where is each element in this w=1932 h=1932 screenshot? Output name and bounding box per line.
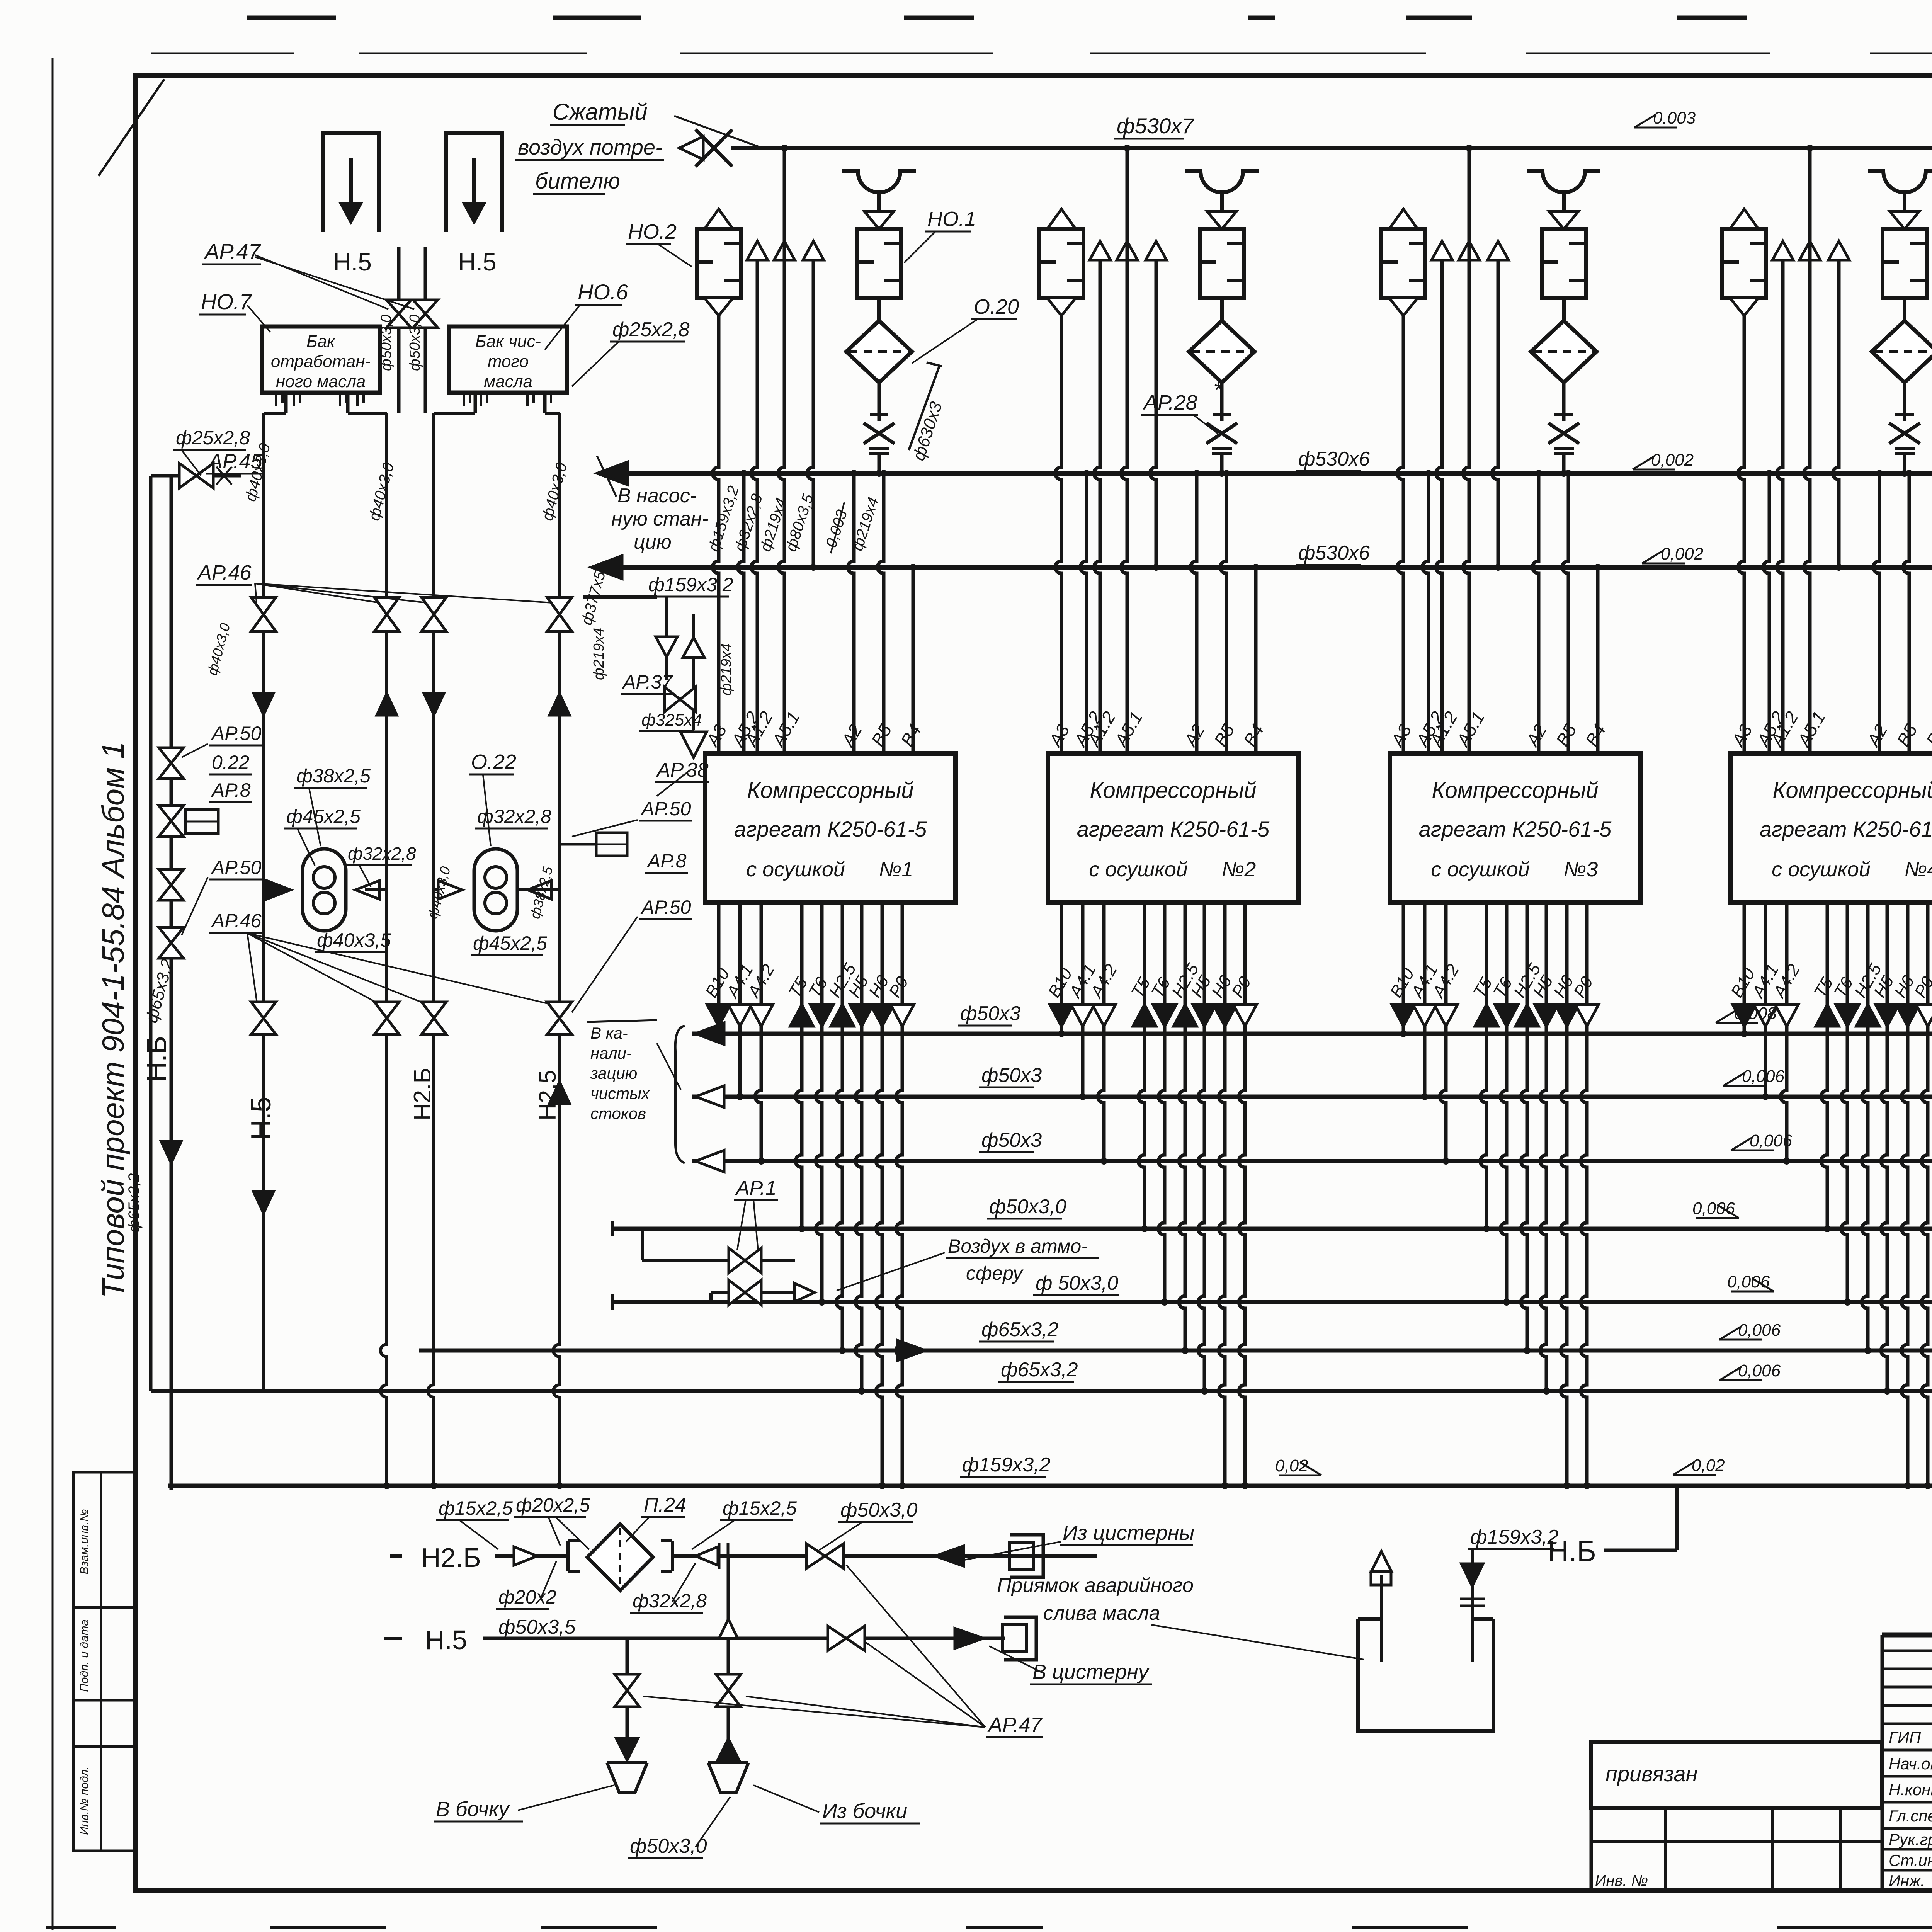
svg-text:ф15х2,5: ф15х2,5 xyxy=(723,1497,797,1519)
svg-text:Нач.отд.: Нач.отд. xyxy=(1889,1755,1932,1773)
svg-text:Воздух в атмо-: Воздух в атмо- xyxy=(948,1235,1088,1257)
svg-text:№1: №1 xyxy=(879,858,913,881)
svg-text:0,006: 0,006 xyxy=(1727,1272,1770,1291)
svg-text:Рук.гр.: Рук.гр. xyxy=(1889,1830,1932,1849)
svg-text:Н.контр.: Н.контр. xyxy=(1889,1781,1932,1799)
svg-text:НО.1: НО.1 xyxy=(927,207,976,231)
svg-text:АР.50: АР.50 xyxy=(211,723,262,744)
svg-text:№2: №2 xyxy=(1222,858,1256,881)
svg-text:0,006: 0,006 xyxy=(1742,1067,1785,1086)
svg-text:Инж.: Инж. xyxy=(1889,1872,1925,1890)
svg-text:АР.46: АР.46 xyxy=(211,910,262,932)
svg-text:Из цистерны: Из цистерны xyxy=(1063,1521,1194,1544)
svg-text:ф50х3: ф50х3 xyxy=(981,1129,1042,1151)
svg-text:нали-: нали- xyxy=(590,1044,632,1062)
svg-text:ф32х2,8: ф32х2,8 xyxy=(633,1590,707,1612)
svg-text:0,02: 0,02 xyxy=(1692,1456,1725,1475)
svg-text:О.20: О.20 xyxy=(974,295,1019,318)
svg-text:АР.1: АР.1 xyxy=(735,1177,777,1199)
svg-text:ф159х3,2: ф159х3,2 xyxy=(962,1454,1051,1476)
svg-text:ф219х4: ф219х4 xyxy=(591,628,607,680)
svg-text:ного масла: ного масла xyxy=(276,372,366,391)
svg-text:Компрессорный: Компрессорный xyxy=(747,778,913,803)
svg-text:0,02: 0,02 xyxy=(1275,1456,1308,1475)
svg-text:ф 50х3,0: ф 50х3,0 xyxy=(1036,1272,1118,1294)
svg-text:привязан: привязан xyxy=(1605,1762,1697,1786)
svg-text:ф159х3,2: ф159х3,2 xyxy=(1470,1526,1559,1548)
svg-text:0,006: 0,006 xyxy=(1738,1321,1781,1340)
svg-text:НО.6: НО.6 xyxy=(578,280,629,304)
svg-text:ф32х2,8: ф32х2,8 xyxy=(477,806,551,827)
svg-text:ф65х3,2: ф65х3,2 xyxy=(981,1318,1059,1341)
svg-text:ф65х3,2: ф65х3,2 xyxy=(1001,1359,1078,1381)
svg-text:Бак чис-: Бак чис- xyxy=(475,332,541,351)
svg-text:с осушкой: с осушкой xyxy=(746,858,845,881)
svg-text:АР.38: АР.38 xyxy=(656,759,709,781)
svg-text:ф15х2,5: ф15х2,5 xyxy=(439,1497,513,1519)
svg-text:ф530х6: ф530х6 xyxy=(1298,448,1370,470)
svg-text:ф159х3,2: ф159х3,2 xyxy=(648,574,733,595)
svg-text:ф45х2,5: ф45х2,5 xyxy=(286,806,361,827)
svg-text:того: того xyxy=(488,352,529,371)
svg-text:0,006: 0,006 xyxy=(1738,1361,1781,1380)
svg-text:ную стан-: ную стан- xyxy=(611,508,709,530)
svg-text:ф219х4: ф219х4 xyxy=(718,643,735,696)
svg-text:АР.37: АР.37 xyxy=(622,671,673,693)
svg-text:ф45х2,5: ф45х2,5 xyxy=(473,932,547,954)
svg-text:№3: №3 xyxy=(1564,858,1598,881)
svg-text:*: * xyxy=(1213,377,1223,403)
svg-text:ГИП: ГИП xyxy=(1889,1728,1921,1747)
svg-text:ф50х3,5: ф50х3,5 xyxy=(498,1616,576,1638)
svg-text:Гл.спец.: Гл.спец. xyxy=(1889,1807,1932,1825)
svg-text:чистых: чистых xyxy=(590,1084,650,1102)
svg-text:агрегат К250-61-5: агрегат К250-61-5 xyxy=(1077,817,1270,841)
svg-text:АР.46: АР.46 xyxy=(197,561,252,584)
svg-text:АР.47: АР.47 xyxy=(204,239,261,264)
svg-text:ф25х2,8: ф25х2,8 xyxy=(612,318,690,341)
svg-text:Н.Б: Н.Б xyxy=(141,1036,172,1082)
svg-text:В ка-: В ка- xyxy=(590,1024,628,1042)
svg-text:АР.50: АР.50 xyxy=(640,798,691,820)
svg-text:Н.5: Н.5 xyxy=(458,248,497,276)
svg-text:сферу: сферу xyxy=(966,1262,1024,1284)
svg-text:с осушкой: с осушкой xyxy=(1089,858,1188,881)
svg-text:бителю: бителю xyxy=(535,168,620,194)
svg-text:стоков: стоков xyxy=(590,1104,646,1122)
svg-text:0,002: 0,002 xyxy=(1661,544,1703,563)
svg-text:ф25х2,8: ф25х2,8 xyxy=(176,427,250,449)
svg-text:0.003: 0.003 xyxy=(1653,109,1696,128)
svg-text:агрегат К250-61-5: агрегат К250-61-5 xyxy=(734,817,927,841)
svg-text:Ст.инж.: Ст.инж. xyxy=(1889,1851,1932,1869)
svg-text:Сжатый: Сжатый xyxy=(553,99,647,125)
svg-text:ф20х2: ф20х2 xyxy=(498,1586,556,1608)
svg-text:с осушкой: с осушкой xyxy=(1431,858,1530,881)
svg-text:отработан-: отработан- xyxy=(271,352,371,371)
svg-text:Из бочки: Из бочки xyxy=(822,1799,907,1823)
svg-text:ф325х4: ф325х4 xyxy=(641,711,702,730)
svg-text:В насос-: В насос- xyxy=(617,485,697,507)
svg-text:НО.2: НО.2 xyxy=(628,220,677,243)
svg-text:НО.7: НО.7 xyxy=(201,289,252,314)
svg-text:Н.5: Н.5 xyxy=(425,1625,467,1655)
svg-text:ф50х3,0: ф50х3,0 xyxy=(840,1499,918,1521)
svg-text:АР.8: АР.8 xyxy=(211,779,251,801)
svg-text:Н2.Б: Н2.Б xyxy=(421,1543,481,1573)
svg-text:воздух потре-: воздух потре- xyxy=(518,135,663,159)
svg-text:П.24: П.24 xyxy=(644,1494,686,1516)
svg-text:ф40х3,5: ф40х3,5 xyxy=(317,929,391,951)
svg-text:агрегат К250-61-5: агрегат К250-61-5 xyxy=(1760,817,1932,841)
svg-text:О.22: О.22 xyxy=(471,750,516,774)
svg-text:АР.8: АР.8 xyxy=(646,850,687,872)
svg-text:ф20х2,5: ф20х2,5 xyxy=(516,1494,590,1516)
svg-text:Н.Б: Н.Б xyxy=(1548,1535,1596,1568)
svg-text:В бочку: В бочку xyxy=(436,1798,510,1821)
svg-text:0.22: 0.22 xyxy=(212,752,250,773)
svg-text:Компрессорный: Компрессорный xyxy=(1772,778,1932,803)
svg-text:слива масла: слива масла xyxy=(1043,1602,1160,1624)
svg-text:Бак: Бак xyxy=(306,332,336,351)
svg-text:Н.5: Н.5 xyxy=(333,248,372,276)
svg-text:с осушкой: с осушкой xyxy=(1772,858,1871,881)
svg-text:цию: цию xyxy=(634,531,672,553)
svg-text:0,006: 0,006 xyxy=(1750,1131,1793,1150)
svg-text:ф32х2,8: ф32х2,8 xyxy=(348,844,416,864)
svg-text:Компрессорный: Компрессорный xyxy=(1090,778,1256,803)
svg-text:АР.28: АР.28 xyxy=(1143,391,1197,414)
svg-text:АР.47: АР.47 xyxy=(987,1713,1043,1736)
svg-text:зацию: зацию xyxy=(590,1064,637,1082)
svg-text:В цистерну: В цистерну xyxy=(1032,1660,1150,1684)
svg-text:АР.50: АР.50 xyxy=(640,896,691,918)
svg-text:ф38х2,5: ф38х2,5 xyxy=(296,765,371,787)
svg-text:ф50х3: ф50х3 xyxy=(981,1064,1042,1087)
svg-text:агрегат К250-61-5: агрегат К250-61-5 xyxy=(1419,817,1612,841)
svg-text:ф530х7: ф530х7 xyxy=(1117,114,1194,138)
svg-text:№4: №4 xyxy=(1905,858,1932,881)
svg-text:ф65х3,2: ф65х3,2 xyxy=(126,1173,143,1233)
svg-text:Компрессорный: Компрессорный xyxy=(1432,778,1598,803)
svg-text:Инв. №: Инв. № xyxy=(1595,1872,1648,1889)
svg-text:0,006: 0,006 xyxy=(1692,1199,1735,1218)
svg-text:Взам.инв.№: Взам.инв.№ xyxy=(78,1509,91,1575)
svg-text:0,008: 0,008 xyxy=(1734,1004,1777,1023)
svg-text:ф50х3: ф50х3 xyxy=(960,1002,1020,1025)
svg-text:Типовой проект 904-1-55.: Типовой проект 904-1-55.84 Альбом 1 xyxy=(96,742,130,1298)
svg-text:Н.5: Н.5 xyxy=(246,1097,277,1140)
svg-text:ф530х6: ф530х6 xyxy=(1298,542,1370,564)
svg-text:Подп. и дата: Подп. и дата xyxy=(78,1619,91,1692)
svg-text:Н2.Б: Н2.Б xyxy=(409,1068,436,1121)
svg-text:Инв.№ подл.: Инв.№ подл. xyxy=(78,1766,91,1835)
svg-text:масла: масла xyxy=(484,372,532,391)
svg-text:ф50х3,0: ф50х3,0 xyxy=(989,1196,1066,1218)
svg-text:0,002: 0,002 xyxy=(1651,451,1694,469)
svg-text:АР.50: АР.50 xyxy=(211,857,262,878)
svg-text:Приямок аварийного: Приямок аварийного xyxy=(997,1574,1194,1597)
svg-text:ф50х3,0: ф50х3,0 xyxy=(407,315,423,371)
